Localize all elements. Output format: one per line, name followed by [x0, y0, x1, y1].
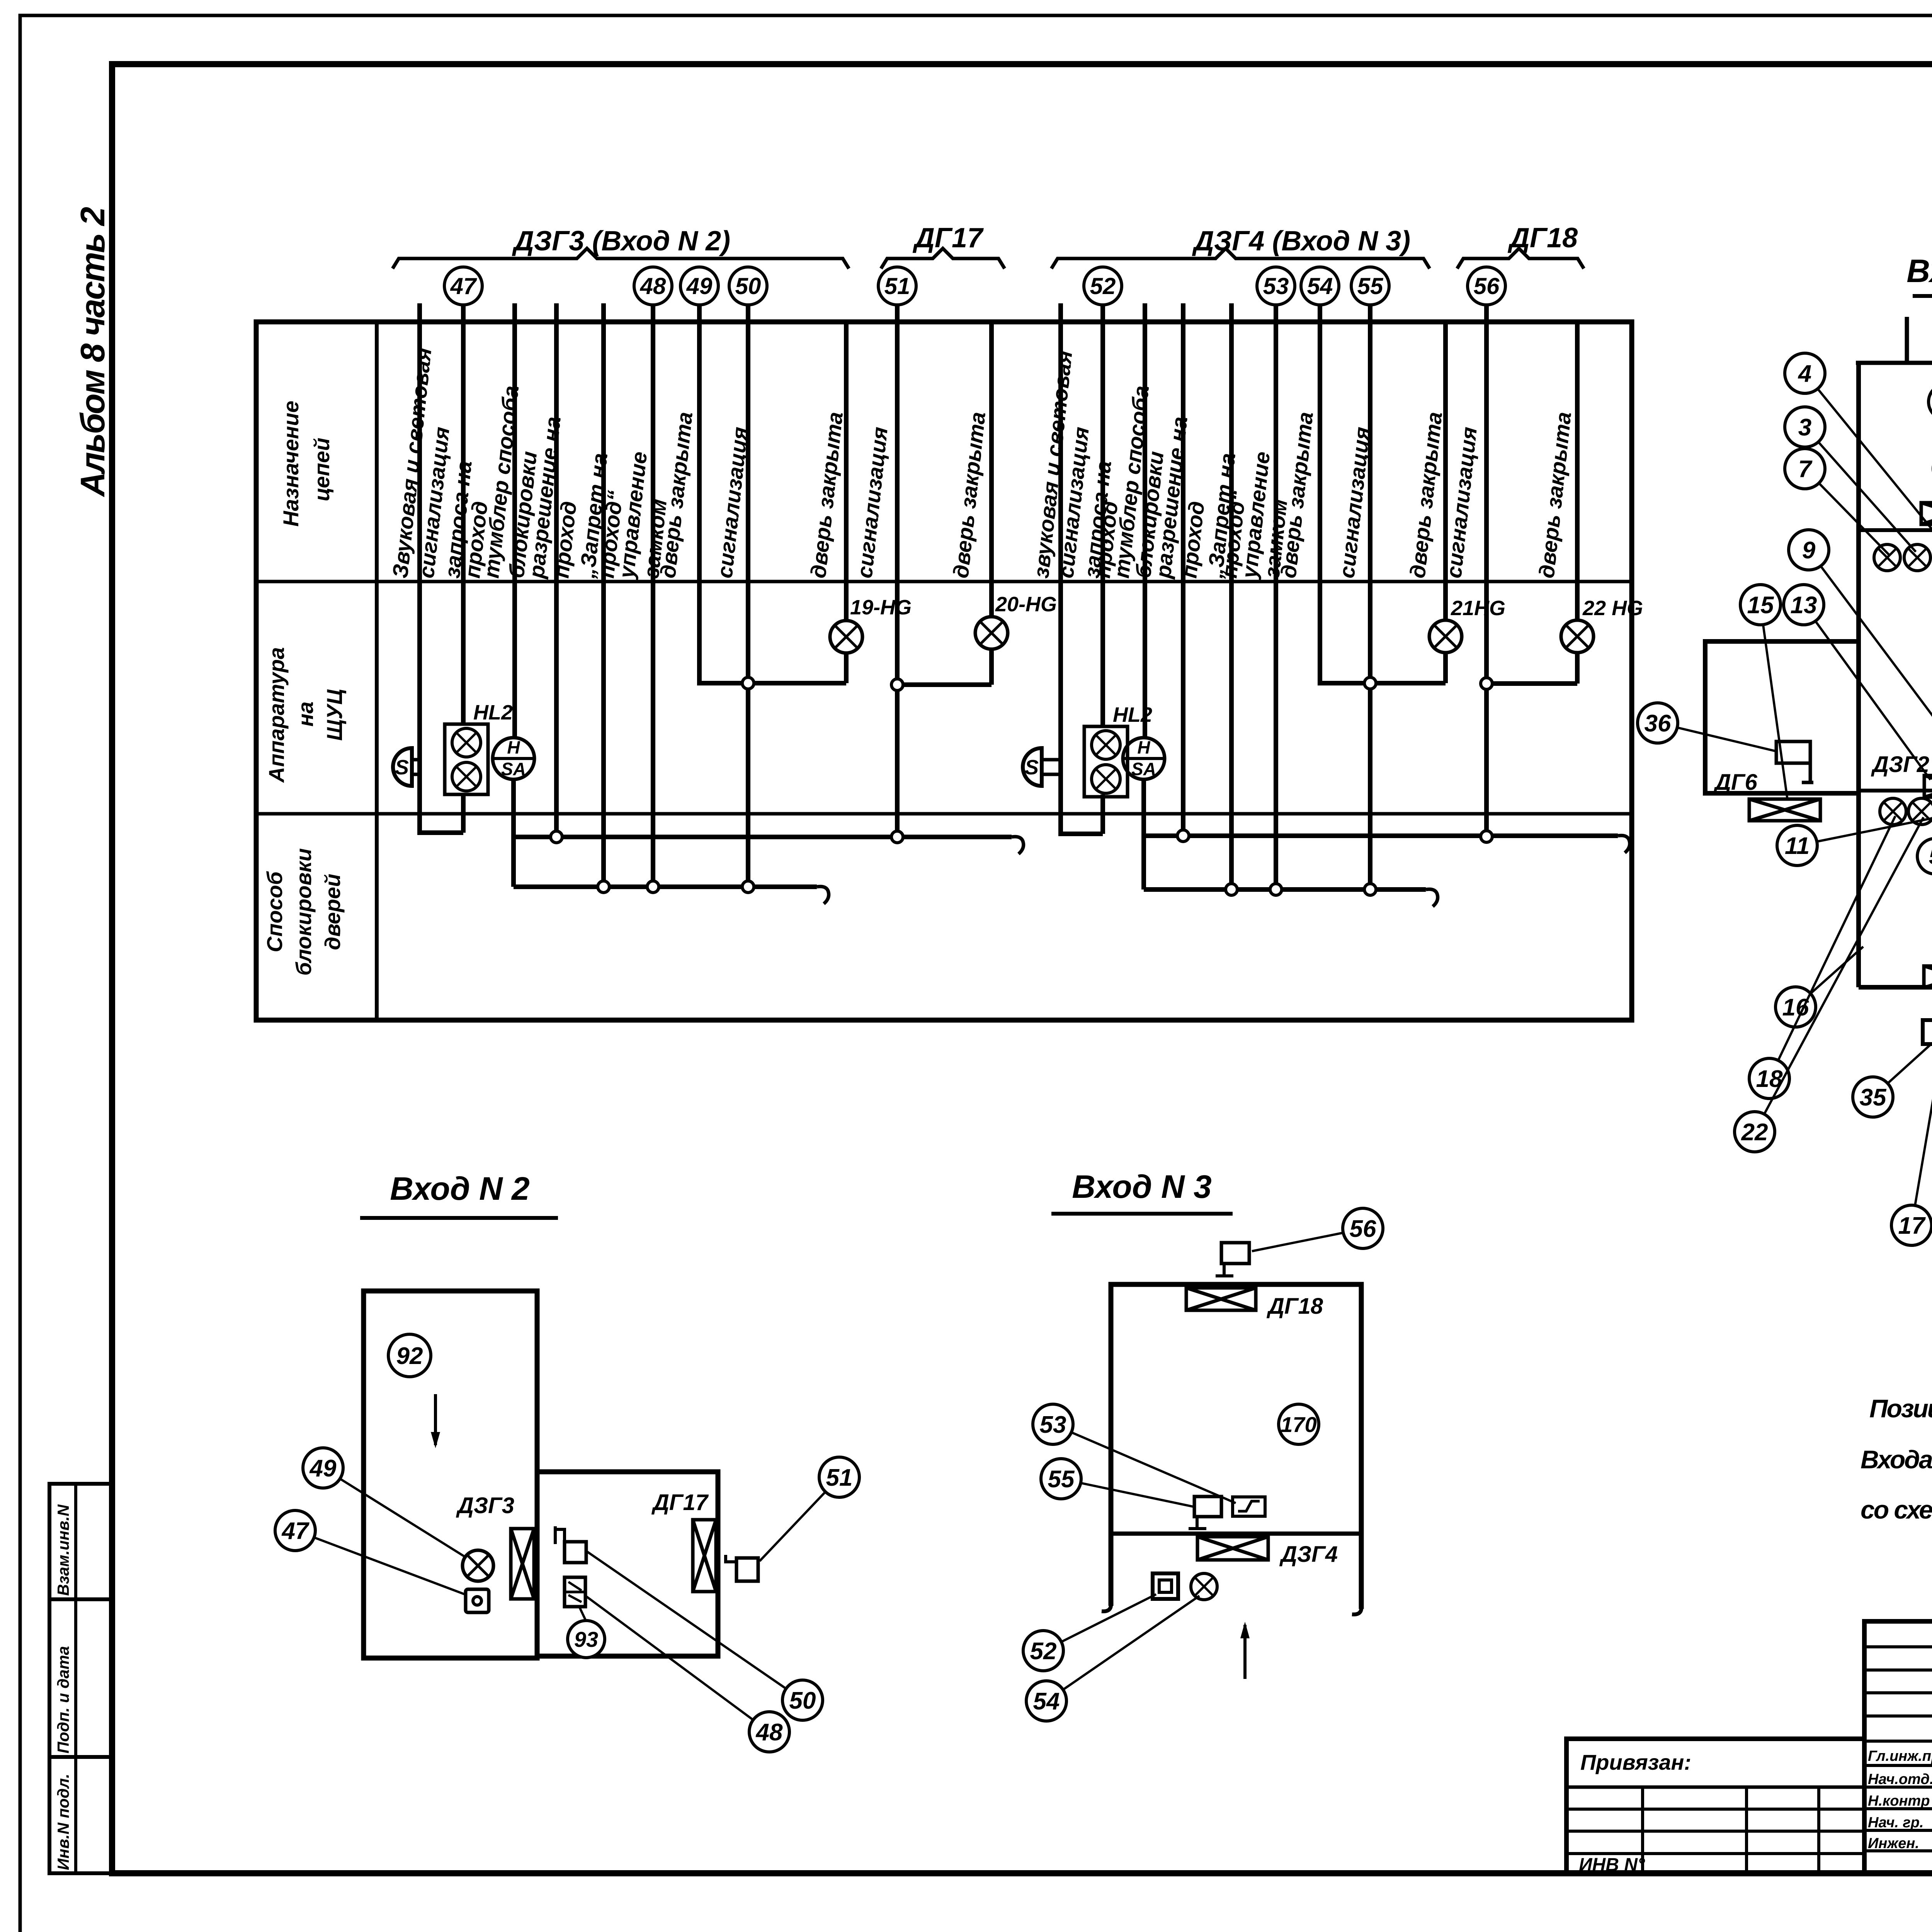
callout 50 leader (plan N2)	[587, 1552, 823, 1720]
svg-text:Нач.отд.: Нач.отд.	[1868, 1771, 1932, 1787]
svg-text:Инжен.: Инжен.	[1868, 1835, 1919, 1852]
note text	[1861, 1394, 1932, 1524]
door contact ДГ18	[1186, 1288, 1323, 1319]
door closer in annex	[555, 1526, 586, 1563]
svg-text:49: 49	[686, 273, 713, 299]
signal circle 47	[444, 267, 482, 305]
signal table frame	[256, 322, 1632, 1020]
svg-text:SА: SА	[501, 759, 526, 779]
entrance N1 walls	[1856, 316, 1932, 374]
svg-text:54: 54	[1033, 1688, 1060, 1715]
svg-text:Позиционные обозначения в круж: Позиционные обозначения в кружках	[1869, 1394, 1932, 1423]
column label замком at 1704	[639, 498, 671, 580]
wire L1 звуковая сигнализация (S line)	[420, 303, 463, 833]
svg-text:52: 52	[1030, 1638, 1057, 1665]
svg-text:ДЗГ3: ДЗГ3	[456, 1493, 514, 1518]
signal circle 55	[1351, 267, 1389, 305]
svg-text:16: 16	[1782, 994, 1809, 1021]
column label разрешение на at 1407	[524, 415, 565, 580]
svg-text:36: 36	[1645, 710, 1671, 737]
svg-text:51: 51	[884, 273, 910, 299]
column label дверь закрыта at 3687	[1405, 411, 1447, 579]
room3 lamp a	[1874, 544, 1900, 571]
column label блокировки at 1355	[504, 450, 541, 579]
room 170 walls	[1102, 1284, 1361, 1614]
title block: signature table	[1864, 1621, 1932, 1873]
lamp 19-HG	[830, 596, 912, 653]
wall with ДЗГ4	[1111, 1532, 1361, 1536]
door closer in room 170	[1189, 1497, 1221, 1529]
svg-text:ДЗГ4: ДЗГ4	[1279, 1542, 1338, 1567]
svg-text:170: 170	[1281, 1412, 1316, 1437]
ДЗГ3 label	[456, 1493, 514, 1518]
svg-text:блокировки: блокировки	[291, 848, 316, 976]
svg-text:55: 55	[1357, 273, 1384, 299]
column label сигнализация at 2777	[1053, 426, 1094, 579]
svg-text:Подп. и дата: Подп. и дата	[54, 1646, 72, 1753]
column label сигнализация at 3781	[1441, 426, 1481, 579]
signal circle 50	[729, 267, 767, 305]
svg-text:56: 56	[1350, 1216, 1376, 1242]
column label тумблер способа at 1290	[479, 384, 523, 579]
row label: Назначение цепей	[279, 401, 334, 527]
room5 lamp a	[1880, 798, 1906, 825]
svg-text:ДГ6: ДГ6	[1713, 770, 1757, 795]
column label запроса на at 1189	[440, 459, 476, 579]
svg-text:50: 50	[735, 273, 761, 299]
svg-text:47: 47	[281, 1518, 310, 1544]
svg-text:Н: Н	[507, 737, 520, 757]
column label замком at 3310	[1259, 498, 1292, 580]
column label разрешение на at 3029	[1151, 415, 1192, 580]
column label проход“ at 1588	[594, 489, 627, 579]
svg-text:93: 93	[574, 1627, 598, 1651]
svg-text:22 HG: 22 HG	[1582, 597, 1643, 620]
entrance N3 arrow	[1240, 1622, 1250, 1679]
column label проход at 1471	[549, 500, 581, 579]
room3 lamp b	[1904, 544, 1930, 571]
svg-text:48: 48	[755, 1719, 783, 1746]
relay device in room 170	[1233, 1497, 1265, 1516]
callout 47 leader (plan N2)	[275, 1510, 467, 1595]
svg-text:17: 17	[1898, 1213, 1926, 1239]
ДГ17 label	[651, 1490, 709, 1515]
junction R5-bus4	[1226, 884, 1237, 895]
door closer in ДГ6	[1776, 742, 1813, 782]
callout 55 leader (plan N3)	[1041, 1459, 1195, 1507]
indicator block HL2 (group 1)	[445, 701, 513, 794]
svg-text:S: S	[1025, 756, 1039, 779]
junction R8-bus4	[1364, 884, 1376, 895]
callout 15 leader	[1740, 585, 1787, 800]
junction L8-bus2	[742, 881, 754, 893]
svg-text:92: 92	[396, 1343, 423, 1369]
svg-text:3: 3	[1798, 414, 1811, 441]
svg-text:Способ: Способ	[262, 871, 287, 952]
row label: Аппаратура на ЩУЦ	[264, 647, 347, 783]
signal circle 54	[1301, 267, 1339, 305]
group brace ДЗГ4 (Вход N 3)	[1051, 226, 1430, 269]
group brace ДГ17	[881, 223, 1005, 269]
column label управление at 3252	[1237, 451, 1274, 581]
svg-text:20-HG: 20-HG	[995, 593, 1057, 616]
callout 4 leader	[1785, 353, 1932, 551]
wire R7 line 54 дверь закрыта	[1320, 305, 1446, 683]
group brace ДГ18	[1457, 223, 1584, 269]
wire R2 line 52 (HL2)	[1100, 305, 1105, 834]
svg-text:19-HG: 19-HG	[850, 596, 912, 619]
pushbutton S (group 1)	[393, 748, 420, 786]
wire L3 тумблер способа блокировки (H/SA line)	[514, 303, 515, 887]
room 92 arrow	[431, 1394, 440, 1448]
callout 53 leader (plan N3)	[1033, 1404, 1236, 1503]
pushbutton S (group 2)	[1023, 748, 1061, 786]
door contact ДГ4	[1924, 941, 1932, 988]
lamp in room 92	[463, 1550, 493, 1581]
junction L6-bus2	[647, 881, 659, 893]
svg-text:51: 51	[826, 1464, 853, 1491]
flag above room N3	[1216, 1243, 1249, 1276]
column label проход at 3096	[1177, 500, 1209, 579]
junction L8-19HG	[742, 677, 754, 689]
svg-text:ДГ18: ДГ18	[1507, 223, 1578, 253]
svg-text:Н: Н	[1137, 737, 1150, 757]
lamp 22-HG	[1561, 597, 1643, 653]
callout 13 leader	[1784, 585, 1930, 780]
selector H/SA (group 2)	[1123, 737, 1165, 779]
lamp 21-HG	[1429, 597, 1505, 653]
column label проход at 1241	[460, 500, 492, 579]
door contact ДЗГ3	[511, 1529, 534, 1599]
column label блокировки at 2977	[1131, 450, 1168, 579]
wire R11 lamp 22-HG drop	[1575, 322, 1580, 684]
callout 52 leader (plan N3)	[1023, 1594, 1156, 1671]
outside door device 51	[726, 1555, 758, 1581]
column label тумблер способа at 2921	[1109, 384, 1153, 579]
svg-text:48: 48	[640, 273, 666, 299]
wire L11 lamp 20-HG drop	[989, 322, 994, 685]
svg-text:Аппаратура: Аппаратура	[264, 647, 289, 783]
wire L5 запрет на проход	[601, 303, 606, 887]
svg-text:Н.контр: Н.контр	[1868, 1793, 1930, 1809]
svg-text:Нач. гр.: Нач. гр.	[1868, 1815, 1923, 1831]
column label сигнализация at 1122	[414, 426, 454, 579]
signal circle 53	[1257, 267, 1295, 305]
junction L5-bus2	[598, 881, 609, 893]
callout 54 leader (plan N3)	[1026, 1596, 1199, 1721]
svg-text:54: 54	[1307, 273, 1333, 299]
signal circle 56	[1468, 267, 1505, 305]
wire L6 line 48 управление замком	[651, 305, 655, 887]
column label проход“ at 3200	[1217, 489, 1250, 579]
svg-text:49: 49	[309, 1455, 337, 1482]
wire L10 line 51 сигнализация ДГ17	[897, 305, 992, 837]
svg-text:5: 5	[1929, 844, 1932, 869]
room column walls (rooms 2,3,5)	[1859, 363, 1932, 987]
album label: Альбом 8 часть 2	[73, 207, 112, 497]
wire R3 тумблер (H/SA line, group 2)	[1144, 303, 1145, 889]
column label сигнализация at 2256	[852, 426, 892, 579]
svg-text:52: 52	[1090, 273, 1116, 299]
svg-text:53: 53	[1263, 273, 1289, 299]
svg-text:Входа N 1 выполнены в соответс: Входа N 1 выполнены в соответствии	[1861, 1445, 1932, 1474]
wire R9 lamp 21-HG drop	[1443, 322, 1448, 683]
wire L8 line 50 сигнализация	[746, 305, 750, 887]
door contact ДГ17	[693, 1520, 716, 1592]
svg-text:22: 22	[1741, 1119, 1768, 1146]
column label „Запрет на at 1538	[575, 452, 612, 580]
bus 2 (group 1)	[514, 886, 829, 904]
callout 36 leader	[1638, 703, 1777, 752]
svg-text:со схемой лист АЗУ-2.: со схемой лист АЗУ-2.	[1861, 1495, 1932, 1524]
svg-text:Привязан:: Привязан:	[1580, 1750, 1691, 1774]
plan title Вход N 3	[1051, 1168, 1233, 1214]
bus 4 (group 2)	[1144, 889, 1438, 906]
svg-text:ДГ17: ДГ17	[912, 223, 984, 253]
column label звуковая и световая at 2713	[1029, 349, 1077, 579]
svg-text:ЩУЦ: ЩУЦ	[322, 689, 347, 741]
svg-text:9: 9	[1802, 537, 1816, 564]
callout 35 leader	[1853, 1043, 1932, 1117]
bus 1 (group 1)	[514, 837, 1024, 854]
signal circle 48	[634, 267, 672, 305]
column label запроса на at 2844	[1079, 459, 1116, 579]
svg-text:50: 50	[789, 1687, 816, 1714]
flag below plan	[1923, 1009, 1932, 1044]
left stamp table	[49, 1484, 112, 1873]
door contact ДЗГ1	[1921, 503, 1932, 526]
svg-text:7: 7	[1798, 456, 1813, 483]
door contact ДЗГ4	[1197, 1537, 1338, 1567]
junction L10-bus1	[891, 831, 903, 843]
column label дверь закрыта at 4021	[1534, 411, 1576, 579]
svg-text:S: S	[395, 756, 409, 779]
svg-text:Вход N 3: Вход N 3	[1072, 1168, 1211, 1205]
svg-text:56: 56	[1474, 273, 1500, 299]
callout 7 leader	[1785, 449, 1889, 554]
signal circle 51	[878, 267, 916, 305]
wire L2 line 47 (HL2)	[461, 305, 466, 833]
svg-text:HL2: HL2	[1113, 703, 1152, 726]
svg-text:21HG: 21HG	[1451, 597, 1505, 620]
wire R4 разрешение на проход (group 2)	[1181, 303, 1185, 836]
room5 lamp b	[1908, 798, 1932, 825]
column label сигнализация at 3504	[1334, 426, 1374, 579]
plan title Вход N 2	[360, 1170, 558, 1218]
callout 93	[568, 1607, 605, 1658]
wall with ДЗГ1	[1859, 528, 1932, 532]
column label управление at 1640	[614, 451, 651, 581]
wire R8 line 55 сигнализация	[1368, 305, 1372, 889]
svg-text:Вход N 2: Вход N 2	[390, 1170, 529, 1207]
door contact ДГ6	[1713, 770, 1820, 821]
svg-text:Вход N 1: Вход N 1	[1906, 253, 1932, 289]
column label дверь закрыта at 2505	[948, 411, 990, 579]
junction L10-20HG	[891, 679, 903, 690]
wire R10 line 56 сигнализация ДГ18	[1486, 305, 1577, 838]
wire L7 line 49 дверь закрыта	[699, 305, 846, 683]
group brace ДЗГ3 (Вход N 2)	[393, 226, 849, 269]
svg-text:Назначение: Назначение	[279, 401, 303, 527]
junction R10-22HG	[1481, 678, 1492, 689]
bottom wall of plan	[1859, 985, 1932, 990]
wire L9 lamp 19-HG drop	[844, 322, 849, 683]
callout 51 leader (plan N2)	[760, 1457, 859, 1561]
column label дверь закрыта at 2136	[806, 411, 847, 579]
svg-text:цепей: цепей	[310, 438, 334, 502]
callout 9 leader	[1789, 530, 1932, 731]
bus 3 (group 2)	[1144, 835, 1630, 853]
plan title Вход N 1	[1906, 253, 1932, 296]
svg-text:15: 15	[1747, 592, 1774, 619]
room number 5	[1917, 838, 1932, 874]
svg-text:ДЗГ4 (Вход N 3): ДЗГ4 (Вход N 3)	[1192, 226, 1410, 257]
callout 48 leader (plan N2)	[587, 1597, 789, 1752]
callout 18 leader	[1749, 816, 1895, 1099]
wire L4 разрешение на проход	[554, 303, 559, 837]
callout 16 leader	[1776, 947, 1863, 1027]
svg-text:на: на	[293, 702, 318, 727]
row label: Способ блокировки дверей	[262, 848, 345, 976]
lamp 20-HG	[975, 593, 1057, 649]
room 92 walls	[364, 1291, 537, 1658]
callout 49 leader (plan N2)	[303, 1448, 466, 1557]
svg-text:13: 13	[1791, 592, 1817, 619]
svg-text:ДГ17: ДГ17	[651, 1490, 709, 1515]
svg-text:Инв.N подл.: Инв.N подл.	[54, 1774, 72, 1870]
annex room ДГ17 walls	[537, 1472, 718, 1656]
svg-text:дверей: дверей	[320, 874, 345, 950]
room number 92	[388, 1334, 431, 1377]
callout 56 (plan N3)	[1252, 1208, 1383, 1251]
svg-text:Гл.инж.пр: Гл.инж.пр	[1868, 1748, 1932, 1764]
signature rows text	[1868, 1745, 1932, 1852]
column label сигнализация at 1894	[712, 426, 752, 579]
selector H/SA (group 1)	[493, 737, 534, 779]
wire R5 запрет на проход (group 2)	[1229, 303, 1234, 889]
room ДГ6 (left)	[1705, 641, 1859, 793]
column label Звуковая и световая at 1054	[388, 347, 436, 579]
column label дверь закрыта at 1747	[655, 411, 697, 579]
key device in room 92	[466, 1589, 489, 1612]
svg-text:11: 11	[1785, 833, 1810, 859]
device 93	[565, 1577, 585, 1607]
svg-text:55: 55	[1048, 1466, 1075, 1493]
lamp below (54)	[1191, 1573, 1217, 1600]
square device below (52)	[1153, 1573, 1178, 1599]
room number 2	[1929, 384, 1932, 420]
signal circle 49	[680, 267, 718, 305]
wire R1 звуковая (S line, group 2)	[1061, 303, 1103, 834]
column label проход at 2872	[1090, 500, 1122, 579]
wall with ДЗГ2	[1859, 789, 1932, 793]
door contact ДЗГ2	[1871, 752, 1932, 797]
svg-text:ДГ18: ДГ18	[1266, 1294, 1323, 1319]
svg-text:HL2: HL2	[473, 701, 513, 724]
junction R10-bus3	[1481, 831, 1492, 842]
callout 22 leader	[1735, 817, 1923, 1152]
junction L4-bus1	[551, 831, 562, 843]
svg-text:ИНВ N°: ИНВ N°	[1579, 1855, 1645, 1875]
indicator block HL2 (group 2)	[1084, 703, 1152, 797]
svg-text:4: 4	[1798, 361, 1811, 387]
title block: привязан table	[1566, 1739, 1864, 1875]
room number 170	[1279, 1404, 1319, 1444]
svg-text:35: 35	[1860, 1084, 1887, 1111]
signal circle 52	[1084, 267, 1122, 305]
wire R6 line 53 управление замком	[1274, 305, 1278, 889]
svg-text:47: 47	[450, 273, 477, 299]
callout 17 leader	[1891, 988, 1932, 1245]
svg-text:Взам.инв.N: Взам.инв.N	[54, 1504, 72, 1596]
svg-text:Альбом 8 часть 2: Альбом 8 часть 2	[73, 207, 112, 497]
svg-text:SА: SА	[1131, 759, 1156, 779]
callout 3 leader	[1785, 407, 1916, 552]
junction R4-bus3	[1177, 830, 1189, 842]
svg-text:53: 53	[1040, 1412, 1066, 1438]
junction R8-21HG	[1364, 677, 1376, 689]
column label дверь закрыта at 3353	[1276, 411, 1318, 579]
junction R6-bus4	[1270, 884, 1282, 895]
column label „Запрет на at 3163	[1202, 452, 1240, 580]
svg-text:ДЗГ3 (Вход N 2): ДЗГ3 (Вход N 2)	[512, 226, 730, 257]
callout 11 leader	[1777, 815, 1932, 866]
